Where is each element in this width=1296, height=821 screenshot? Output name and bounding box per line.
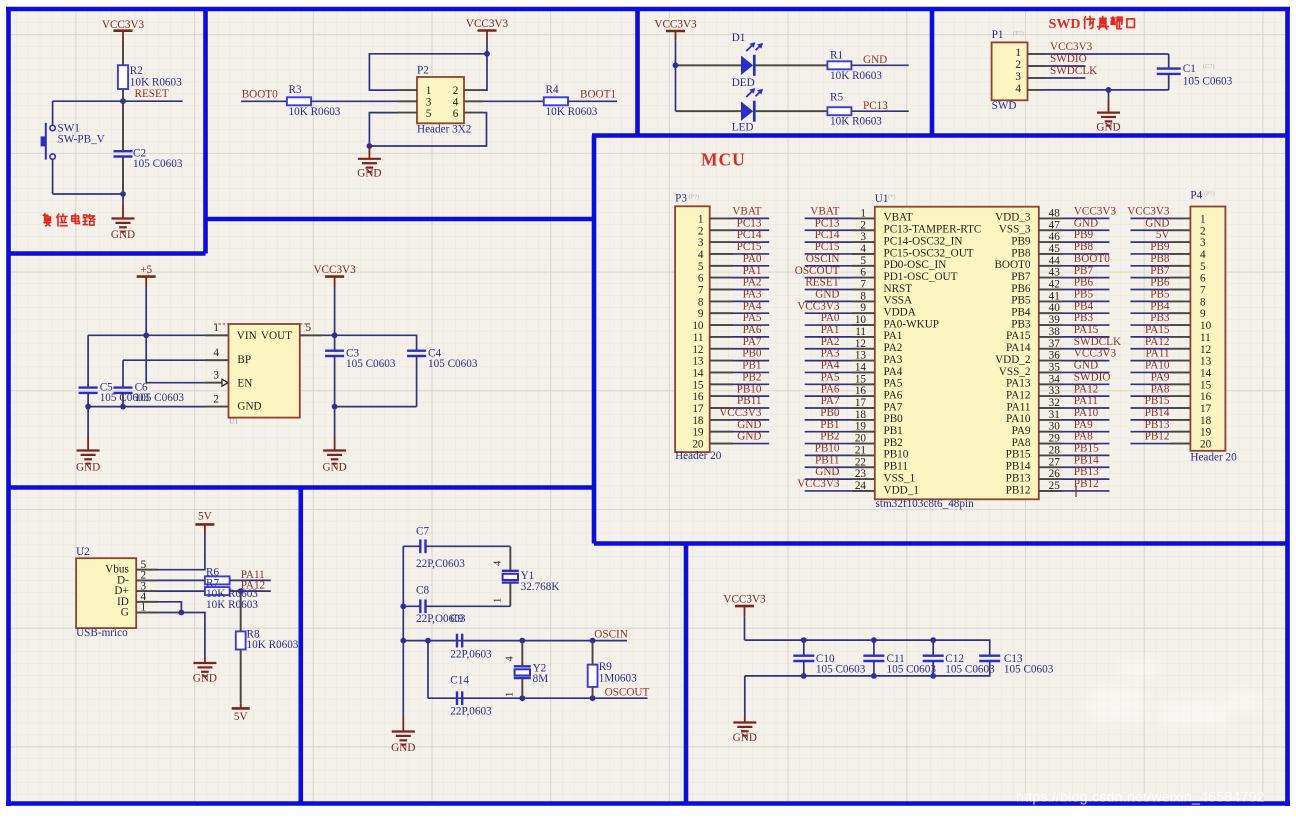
junction (C10 top) — [801, 637, 807, 643]
P4 pin 3 wire + net 5V — [1131, 229, 1191, 242]
crystal Y2 — [505, 641, 549, 699]
power +5 — [137, 264, 156, 287]
svg-text:PA5: PA5 — [743, 312, 762, 324]
svg-text:11: 11 — [1200, 332, 1211, 344]
svg-text:OSCIN: OSCIN — [594, 628, 628, 640]
svg-text:PB2: PB2 — [820, 431, 839, 443]
U1 pin 26 wire + net PB13 — [1039, 466, 1110, 480]
svg-text:105 C0603: 105 C0603 — [100, 392, 150, 404]
wire BP row (pin4) — [123, 359, 229, 361]
svg-text:PB0: PB0 — [742, 348, 762, 360]
wire G to GND — [136, 613, 205, 658]
ground (reset) — [111, 194, 135, 241]
svg-text:C7: C7 — [416, 525, 429, 537]
U1 pin 12 wire + net PA2 — [805, 336, 875, 350]
connector P2 Header 3X2 — [417, 65, 471, 136]
svg-text:PA10: PA10 — [1006, 413, 1031, 425]
svg-text:2: 2 — [1015, 59, 1021, 71]
svg-text:PA8: PA8 — [1074, 431, 1093, 443]
svg-text:LED: LED — [732, 122, 754, 134]
svg-text:3: 3 — [213, 370, 219, 382]
ground (decoupling) — [733, 716, 757, 744]
svg-text:PB14: PB14 — [1006, 461, 1031, 473]
svg-text:GND: GND — [1074, 217, 1098, 229]
svg-text:4: 4 — [213, 347, 219, 359]
svg-text:10K R0603: 10K R0603 — [830, 116, 882, 128]
wire GND row (pin2) — [88, 406, 228, 408]
svg-text:VCC3V3: VCC3V3 — [723, 594, 766, 606]
wire top rail — [745, 640, 990, 655]
capacitor C10 — [793, 640, 814, 676]
svg-text:PB15: PB15 — [1145, 395, 1170, 407]
svg-text:PA1: PA1 — [821, 324, 840, 336]
U1 pin 3 wire + net PC14 — [805, 229, 875, 243]
junction — [332, 404, 338, 410]
P3 pin 20 wire + net GND — [710, 431, 770, 444]
wire OSCIN row — [403, 640, 627, 642]
junction (RESET node) — [120, 98, 126, 104]
svg-text:PB9: PB9 — [1011, 235, 1031, 247]
svg-text:PB13: PB13 — [1074, 466, 1099, 478]
section border: mcu box — [206, 136, 1288, 544]
P4 pin 15 wire + net PA9 — [1131, 371, 1191, 384]
P4 pin 12 wire + net PA12 — [1131, 336, 1191, 349]
U1 pin 48 wire + net VCC3V3 — [1039, 206, 1117, 220]
svg-text:PB1: PB1 — [820, 419, 839, 431]
power 5V (below R8) — [232, 703, 250, 723]
svg-text:16: 16 — [1200, 391, 1212, 403]
connector U2 USB-mrico — [76, 546, 146, 639]
svg-text:PB3: PB3 — [1074, 312, 1094, 324]
svg-text:BOOT1: BOOT1 — [580, 88, 616, 100]
svg-text:C1: C1 — [1183, 63, 1196, 75]
svg-text:U1: U1 — [875, 193, 889, 205]
junction — [673, 62, 679, 68]
svg-text:PC15: PC15 — [737, 241, 762, 253]
svg-text:PA3: PA3 — [821, 348, 840, 360]
U1 pin 32 wire + net PA11 — [1039, 395, 1110, 409]
svg-text:VCC3V3: VCC3V3 — [1127, 206, 1170, 218]
junction — [85, 404, 91, 410]
capacitor C3 — [325, 335, 396, 406]
svg-text:14: 14 — [1200, 367, 1212, 379]
svg-text:GND: GND — [737, 419, 761, 431]
wire VCC3V3 to top rail — [744, 617, 746, 641]
svg-text:P2: P2 — [417, 65, 429, 77]
wire VCC to P2 pin1 — [369, 54, 487, 90]
svg-text:GND: GND — [815, 466, 839, 478]
svg-text:PB10: PB10 — [737, 383, 762, 395]
svg-text:10K R0603: 10K R0603 — [546, 106, 598, 118]
junction — [120, 404, 126, 410]
U1 pin 7 wire + net RESET — [805, 277, 875, 291]
title SWD仿真端口 — [1049, 16, 1135, 32]
connector P4 Header 20 — [1190, 190, 1237, 464]
svg-text:13: 13 — [692, 356, 704, 368]
svg-text:GND: GND — [76, 461, 100, 473]
ground (regulator left) — [76, 407, 100, 474]
svg-text:PC13: PC13 — [815, 217, 840, 229]
svg-text:PA9: PA9 — [1074, 419, 1093, 431]
svg-text:PA7: PA7 — [884, 401, 903, 413]
svg-text:R1: R1 — [830, 50, 843, 62]
capacitor C6 — [114, 382, 185, 405]
U1 pin 40 wire + net PB4 — [1039, 300, 1110, 314]
svg-text:OSCIN: OSCIN — [806, 253, 840, 265]
section border: usb/crystal divider — [298, 488, 303, 804]
svg-text:PA7: PA7 — [743, 336, 762, 348]
junction (R9 bottom) — [590, 695, 596, 701]
svg-text:(P?): (P?) — [689, 194, 700, 201]
svg-text:C8: C8 — [416, 584, 429, 596]
svg-text:2: 2 — [453, 85, 459, 97]
svg-text:+5: +5 — [140, 264, 152, 276]
svg-text:22P,C0603: 22P,C0603 — [416, 558, 465, 570]
svg-text:PA15: PA15 — [1006, 330, 1031, 342]
U1 pin 43 wire + net PB7 — [1039, 265, 1110, 279]
wire bottom rail to GND — [744, 676, 746, 716]
svg-text:GND: GND — [1074, 360, 1098, 372]
wire P1 pin4 to GND/C1 — [1028, 89, 1169, 91]
svg-text:PB3: PB3 — [1150, 312, 1170, 324]
svg-text:GND: GND — [237, 401, 261, 413]
capacitor C12 — [923, 640, 944, 676]
svg-text:SWDCLK: SWDCLK — [1050, 65, 1097, 77]
connector P3 Header 20 — [675, 193, 722, 462]
svg-text:DED: DED — [732, 77, 755, 89]
junction — [332, 332, 338, 338]
svg-text:19: 19 — [692, 427, 704, 439]
P3 pin 1 wire + net VBAT — [710, 206, 770, 219]
section border: reset box — [7, 7, 206, 254]
wire ID to G row — [136, 602, 181, 613]
svg-text:5V: 5V — [234, 711, 248, 723]
junction (C11 top) — [871, 637, 877, 643]
wire VCC3V3 down — [486, 40, 488, 54]
svg-text:SWDCLK: SWDCLK — [1074, 336, 1121, 348]
svg-text:PA9: PA9 — [1151, 371, 1170, 383]
op-amp U1 regulator body — [229, 324, 300, 426]
svg-text:10K R0603: 10K R0603 — [130, 77, 182, 89]
svg-text:PB4: PB4 — [1011, 307, 1031, 319]
svg-text:6: 6 — [1200, 273, 1206, 285]
svg-text:4: 4 — [505, 656, 516, 662]
wire D- to R6 — [136, 579, 205, 581]
switch SW1 — [41, 101, 105, 194]
svg-text:GND: GND — [815, 288, 839, 300]
svg-text:1M0603: 1M0603 — [599, 672, 637, 684]
capacitor C8 — [403, 584, 510, 625]
U1 pin 31 wire + net PA10 — [1039, 407, 1110, 421]
U1 pin 14 wire + net PA4 — [805, 360, 875, 374]
op-amp U1 stm32f103c8t6 body — [875, 193, 1039, 510]
svg-text:VBAT: VBAT — [810, 206, 839, 218]
wire D1 to R1 — [754, 64, 827, 66]
svg-text:PA4: PA4 — [743, 300, 762, 312]
svg-text:PB2: PB2 — [742, 371, 761, 383]
svg-text:PA15: PA15 — [1145, 324, 1170, 336]
crystal Y1 — [493, 546, 560, 606]
svg-text:R4: R4 — [546, 84, 559, 96]
U1 pin 30 wire + net PA9 — [1039, 419, 1110, 433]
junction — [1106, 87, 1112, 93]
wire left rail — [402, 546, 404, 716]
P3 pin 18 wire + net VCC3V3 — [710, 407, 770, 420]
section border: crystal/decoupling divider — [684, 544, 689, 804]
power 5V — [195, 511, 214, 534]
svg-text:GND: GND — [322, 461, 346, 473]
svg-text:R9: R9 — [599, 661, 612, 673]
svg-text:PA0: PA0 — [821, 312, 840, 324]
U1 pin 38 wire + net PA15 — [1039, 324, 1110, 338]
svg-text:3: 3 — [1200, 237, 1206, 249]
U1 pin 18 wire + net PB0 — [805, 407, 875, 421]
svg-text:C14: C14 — [450, 675, 469, 687]
svg-text:VCC3V3: VCC3V3 — [102, 19, 145, 31]
svg-text:VOUT: VOUT — [261, 330, 292, 342]
svg-text:1: 1 — [493, 598, 504, 603]
svg-text:PB7: PB7 — [1150, 265, 1170, 277]
junction (C12 bottom) — [930, 673, 936, 679]
svg-text:VCC3V3: VCC3V3 — [797, 478, 840, 490]
P3 pin 7 wire + net PA2 — [710, 277, 770, 290]
capacitor C13 — [979, 656, 1000, 661]
wire R6 to PA11 — [230, 579, 271, 581]
svg-text:VDDA: VDDA — [884, 307, 916, 319]
U1 pin 36 wire + net VCC3V3 — [1039, 348, 1117, 362]
U1 pin 27 wire + net PB14 — [1039, 454, 1110, 468]
U1 pin 39 wire + net PB3 — [1039, 312, 1110, 326]
ground (boot) — [357, 146, 381, 180]
svg-text:VDD_3: VDD_3 — [995, 212, 1031, 224]
diode LED — [732, 88, 763, 134]
svg-text:5V: 5V — [1156, 229, 1170, 241]
svg-text:R2: R2 — [130, 65, 143, 77]
wire P1 pin1 (VCC3V3) — [1028, 53, 1169, 55]
svg-text:PB9: PB9 — [1150, 241, 1170, 253]
svg-text:PB6: PB6 — [1011, 283, 1031, 295]
U1 pin 35 wire + net GND — [1039, 360, 1110, 374]
svg-text:PB12: PB12 — [1074, 478, 1099, 490]
svg-text:VCC3V3: VCC3V3 — [797, 300, 840, 312]
svg-text:PB14: PB14 — [1145, 407, 1170, 419]
wire VCC3V3 down — [675, 41, 677, 66]
svg-text:7: 7 — [1200, 285, 1206, 297]
svg-text:VDD_1: VDD_1 — [884, 484, 919, 496]
svg-text:VCC3V3: VCC3V3 — [1074, 206, 1117, 218]
svg-text:PA11: PA11 — [1006, 401, 1030, 413]
wire to C2 — [122, 101, 124, 151]
svg-text:PB13: PB13 — [1145, 419, 1170, 431]
svg-text:3: 3 — [698, 237, 704, 249]
svg-text:PC13: PC13 — [863, 100, 888, 112]
svg-text:(P?): (P?) — [1013, 30, 1024, 37]
svg-text:PB8: PB8 — [1150, 253, 1170, 265]
U1 pin 28 wire + net PB15 — [1039, 443, 1110, 457]
junction (Y2 top) — [519, 638, 525, 644]
svg-text:USB-mrico: USB-mrico — [76, 627, 128, 639]
svg-text:10: 10 — [692, 320, 704, 332]
svg-text:SW-PB_V: SW-PB_V — [58, 134, 105, 146]
svg-text:VBAT: VBAT — [732, 206, 761, 218]
svg-text:10K R0603: 10K R0603 — [830, 70, 882, 82]
wire LED to R5 — [754, 110, 827, 112]
U1 pin 47 wire + net GND — [1039, 217, 1110, 231]
U1 pin 11 wire + net PA1 — [805, 324, 875, 338]
svg-text:10K R0603: 10K R0603 — [247, 639, 299, 651]
U1 pin 29 wire + net PA8 — [1039, 431, 1110, 445]
svg-text:PB6: PB6 — [1074, 277, 1094, 289]
svg-text:105 C0603: 105 C0603 — [346, 358, 396, 370]
connector P1 (SWD) — [992, 29, 1028, 112]
svg-text:SWDIO: SWDIO — [1074, 371, 1111, 383]
section border: regulator bottom — [7, 485, 595, 490]
resistor R8 — [236, 591, 299, 703]
P4 pin 16 wire + net PA8 — [1131, 383, 1191, 396]
svg-text:PB10: PB10 — [815, 443, 840, 455]
wire +5 down — [145, 287, 147, 335]
svg-text:4: 4 — [698, 249, 704, 261]
svg-text:RESET: RESET — [805, 277, 839, 289]
wire VCC to P2 pin2 — [464, 54, 487, 90]
svg-text:PB10: PB10 — [884, 449, 909, 461]
svg-text:15: 15 — [1200, 379, 1212, 391]
P4 pin 14 wire + net PA10 — [1131, 360, 1191, 373]
svg-text:PC15: PC15 — [815, 241, 840, 253]
U1 pin 25 wire + net PB12 — [1039, 478, 1110, 492]
wire P2 pin5 to GND — [369, 113, 417, 146]
power VCC3V3 (decoupling) — [723, 594, 766, 617]
svg-text:105 C0603: 105 C0603 — [816, 664, 866, 676]
wire C6 to GND row — [122, 393, 124, 407]
svg-text:2: 2 — [213, 393, 219, 405]
capacitor C4 — [407, 347, 478, 406]
svg-text:PB15: PB15 — [1074, 443, 1099, 455]
svg-text:VCC3V3: VCC3V3 — [1074, 348, 1117, 360]
P4 pin 7 wire + net PB6 — [1131, 277, 1191, 290]
svg-text:(P?): (P?) — [1204, 191, 1215, 198]
wire bottom right row — [335, 406, 417, 408]
junction (C10 bottom) — [801, 673, 807, 679]
wire R7 to PA12 — [230, 590, 271, 592]
svg-text:2: 2 — [1200, 225, 1206, 237]
svg-text:PA3: PA3 — [884, 354, 903, 366]
P3 pin 9 wire + net PA4 — [710, 300, 770, 313]
P4 pin 1 wire + net VCC3V3 — [1127, 206, 1190, 219]
svg-text:PB11: PB11 — [884, 461, 908, 473]
svg-text:PB13: PB13 — [1006, 472, 1031, 484]
svg-text:BP: BP — [237, 354, 251, 366]
svg-text:VIN: VIN — [237, 330, 257, 342]
P4 pin 13 wire + net PA11 — [1131, 348, 1191, 361]
svg-text:C9: C9 — [450, 613, 463, 625]
svg-text:PA11: PA11 — [1145, 348, 1169, 360]
U1 pin 45 wire + net PB8 — [1039, 241, 1110, 255]
U1 pin 9 wire + net VCC3V3 — [797, 300, 875, 314]
svg-text:PA5: PA5 — [884, 378, 903, 390]
junction — [400, 603, 406, 609]
wire Vbus to 5V — [136, 533, 205, 570]
svg-text:PA4: PA4 — [821, 360, 840, 372]
title 复位电路 (reset circuit) — [43, 214, 94, 226]
U1 pin 41 wire + net PB5 — [1039, 288, 1110, 302]
svg-text:10K R0603: 10K R0603 — [289, 106, 341, 118]
svg-text:PB5: PB5 — [1074, 288, 1094, 300]
U1 pin 21 wire + net PB10 — [805, 443, 875, 457]
U1 pin 20 wire + net PB2 — [805, 431, 875, 445]
capacitor C2 — [114, 148, 183, 170]
svg-text:10: 10 — [1200, 320, 1212, 332]
svg-text:18: 18 — [1200, 415, 1212, 427]
svg-text:GND: GND — [193, 672, 217, 684]
value labels C10-C13 — [816, 653, 1054, 676]
svg-text:PC14-OSC32_IN: PC14-OSC32_IN — [884, 235, 963, 247]
svg-text:stm32f103c8t6_48pin: stm32f103c8t6_48pin — [876, 498, 975, 510]
junction — [238, 588, 244, 594]
svg-text:PA6: PA6 — [884, 389, 903, 401]
svg-text:PA2: PA2 — [821, 336, 840, 348]
svg-text:U2: U2 — [76, 546, 90, 558]
svg-text:PB4: PB4 — [1074, 300, 1094, 312]
svg-text:105 C0603: 105 C0603 — [945, 664, 995, 676]
svg-text:PA3: PA3 — [743, 288, 762, 300]
junction (C14 branch) — [425, 638, 431, 644]
svg-text:PB9: PB9 — [1074, 229, 1094, 241]
P4 pin 8 wire + net PB5 — [1131, 288, 1191, 301]
svg-text:OSCOUT: OSCOUT — [795, 265, 840, 277]
svg-text:PA4: PA4 — [884, 366, 903, 378]
svg-text:PB11: PB11 — [737, 395, 761, 407]
U1 pin 34 wire + net SWDIO — [1039, 371, 1111, 385]
P3 pin 17 wire + net PB11 — [710, 395, 770, 408]
svg-text:8: 8 — [1200, 296, 1206, 308]
svg-text:PA12: PA12 — [1145, 336, 1169, 348]
svg-text:PB8: PB8 — [1074, 241, 1094, 253]
P4 pin 10 wire + net PB3 — [1131, 312, 1191, 325]
svg-text:PC14: PC14 — [737, 229, 762, 241]
svg-text:PA15: PA15 — [1074, 324, 1099, 336]
P4 pin 4 wire + net PB9 — [1131, 241, 1191, 254]
P3 pin 4 wire + net PC15 — [710, 241, 770, 254]
P4 pin 17 wire + net PB15 — [1131, 395, 1191, 408]
svg-text:PB1: PB1 — [742, 360, 761, 372]
U1 pin 2 wire + net PC13 — [805, 217, 875, 231]
junction (VCC node) — [484, 51, 490, 57]
junction — [400, 638, 406, 644]
svg-text:8M: 8M — [533, 673, 549, 685]
stray mark — [1075, 486, 1077, 497]
junction (C11 bottom) — [871, 673, 877, 679]
svg-text:VSSA: VSSA — [884, 295, 913, 307]
svg-text:PA7: PA7 — [821, 395, 840, 407]
svg-text:105 C0603: 105 C0603 — [1004, 664, 1054, 676]
P3 pin 14 wire + net PB1 — [710, 360, 770, 373]
P3 pin 5 wire + net PA0 — [710, 253, 770, 266]
svg-text:10K R0603: 10K R0603 — [206, 599, 258, 611]
wire VCC3V3 down — [334, 287, 336, 335]
ground (regulator right) — [322, 407, 346, 474]
svg-text:BOOT0: BOOT0 — [994, 259, 1030, 271]
U1 pin 1 wire + net VBAT — [805, 206, 875, 220]
svg-text:GND: GND — [391, 742, 415, 754]
wire VCC3V3 to R2 — [122, 40, 124, 65]
svg-text:SWD: SWD — [1049, 17, 1081, 32]
svg-text:PC13: PC13 — [737, 217, 762, 229]
ground (usb) — [193, 657, 217, 684]
svg-text:PA6: PA6 — [743, 324, 762, 336]
capacitor C5 — [79, 382, 150, 405]
wire C5 to GND row — [87, 393, 89, 407]
